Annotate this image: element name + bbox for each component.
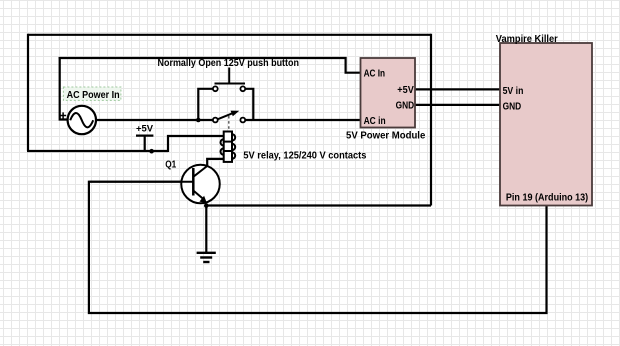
svg-text:AC Power In: AC Power In xyxy=(67,89,120,101)
relay coil K1 xyxy=(221,132,236,162)
svg-text:AC in: AC in xyxy=(364,115,386,127)
wire base run xyxy=(89,182,547,313)
pushbutton S1 xyxy=(215,68,246,84)
AC source V1 xyxy=(60,106,96,134)
svg-text:Q1: Q1 xyxy=(165,158,176,170)
svg-text:5V in: 5V in xyxy=(503,85,524,97)
Vampire Killer U1 xyxy=(500,43,592,206)
svg-text:Vampire Killer: Vampire Killer xyxy=(496,33,558,45)
svg-text:GND: GND xyxy=(503,100,522,112)
junction dot A (switch node) xyxy=(196,118,201,123)
transistor Q1 xyxy=(89,165,220,204)
5V Power Module U2 xyxy=(361,58,416,128)
+5V power symbol xyxy=(136,136,153,151)
wire +5V row xyxy=(27,150,168,152)
junction dot B (+5V tap) xyxy=(149,149,154,154)
AC Power In label xyxy=(63,87,121,101)
wire riser to relay coil top xyxy=(168,136,224,152)
wire right drop to emitter row xyxy=(430,34,432,206)
svg-text:Pin 19 (Arduino 13): Pin 19 (Arduino 13) xyxy=(506,191,588,203)
wire module +5V to 5V in xyxy=(415,88,500,90)
svg-text:+5V: +5V xyxy=(397,84,414,96)
switch terminal circles xyxy=(213,86,245,122)
switch blade with arrow xyxy=(217,111,239,120)
svg-text:+5V: +5V xyxy=(136,123,153,133)
junction dot C (emitter node) xyxy=(204,203,209,208)
svg-text:GND: GND xyxy=(396,100,415,112)
wire switch to module AC in xyxy=(245,119,360,121)
svg-text:5V Power Module: 5V Power Module xyxy=(346,129,425,141)
svg-text:5V relay, 125/240 V contacts: 5V relay, 125/240 V contacts xyxy=(243,149,366,161)
mechanical link dashed xyxy=(228,116,230,131)
svg-text:Normally Open 125V push button: Normally Open 125V push button xyxy=(158,57,300,69)
wire top outer xyxy=(28,34,431,36)
wire AC source left riser xyxy=(60,57,68,120)
svg-text:AC In: AC In xyxy=(364,68,386,80)
ground xyxy=(197,253,216,262)
wire collector to coil xyxy=(207,159,224,167)
wire emitter row xyxy=(206,204,431,206)
wire pushbutton right branch xyxy=(245,89,253,119)
wire module GND to GND xyxy=(415,104,500,106)
wire AC source right to switch node xyxy=(96,119,214,121)
wire upper AC feed xyxy=(59,58,361,73)
wire emitter down to ground xyxy=(205,204,207,253)
wire left outer xyxy=(27,34,29,151)
wire pushbutton left branch xyxy=(198,89,213,120)
